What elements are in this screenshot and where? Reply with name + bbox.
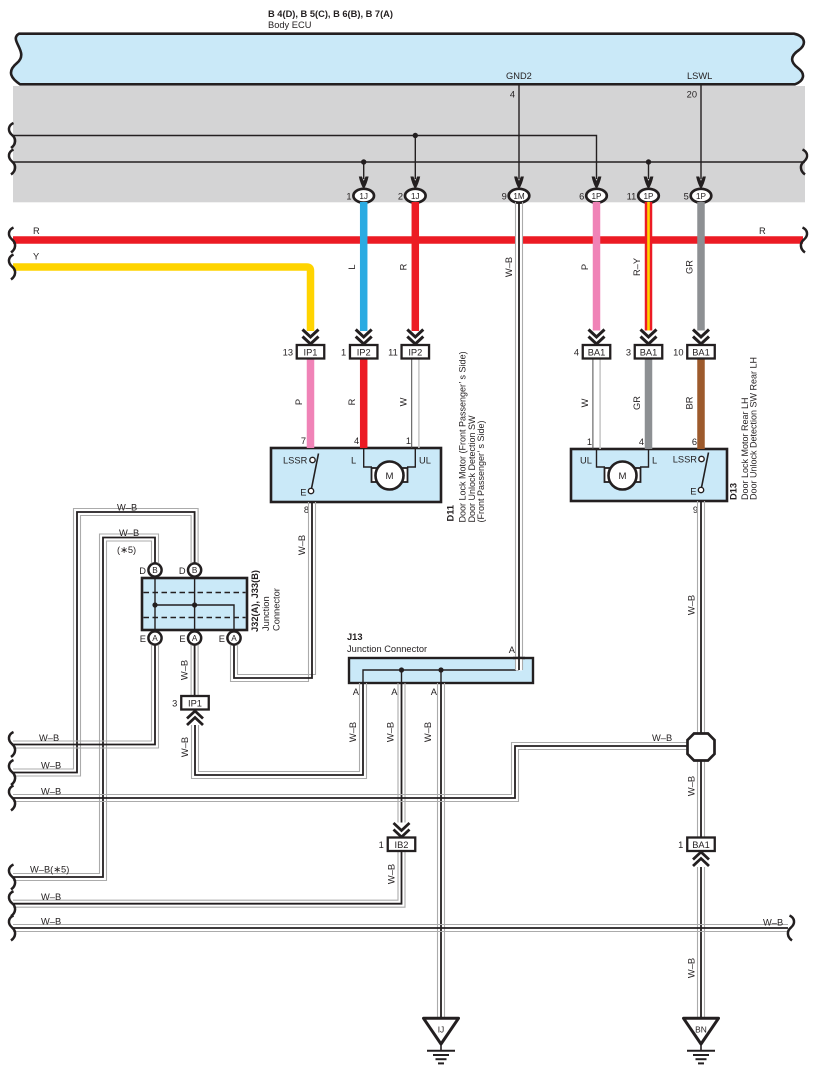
component D11 box [271,448,441,502]
wire L blue vertical [360,202,368,331]
arrow chevron out of BA1 right [693,852,709,866]
svg-text:R–Y: R–Y [632,258,642,276]
svg-text:D13: D13 [729,483,739,500]
svg-text:A: A [431,687,438,697]
svg-text:B: B [152,566,158,575]
svg-text:W–B(∗5): W–B(∗5) [30,865,69,875]
svg-text:W–B: W–B [348,722,358,742]
svg-text:P: P [580,264,590,270]
svg-text:IP2: IP2 [408,347,422,357]
wire W-B inner loop J32 B1 to bus (*5) [13,534,159,881]
connector oval 1P pin11 [627,189,659,203]
svg-text:3: 3 [172,699,177,709]
wire drop to 1J-2 [414,136,416,180]
wire W-B J32 A2 to IP1 [191,645,198,696]
wire W-B IP1 to J13 A1 [192,683,367,779]
svg-text:W: W [399,397,409,406]
wire R horizontal red [13,236,803,244]
wire band line B [13,161,805,163]
switch LSSR D11 [283,454,319,498]
svg-text:6: 6 [579,192,584,202]
connector box 1 BA1 right [678,838,715,852]
svg-text:Y: Y [33,252,39,262]
break squiggle band line B right [801,150,807,175]
arrow chevron out of IP1 mid [187,711,203,725]
junction dot J13 a [399,667,404,672]
svg-text:L: L [347,264,357,269]
connector oval 1J pin1 [346,189,374,203]
patch J13 border over 1M wire [513,657,525,659]
svg-text:B 4(D), B 5(C), B 6(B), B 7(A): B 4(D), B 5(C), B 6(B), B 7(A) [268,9,393,19]
svg-text:W–B: W–B [180,660,190,680]
svg-text:BA1: BA1 [588,347,606,357]
svg-text:M: M [619,471,627,482]
svg-text:E: E [179,634,185,644]
wire W-B J13 A3 to ground IJ [438,683,445,1018]
svg-text:A: A [353,687,360,697]
component J32 J33 junction connector box [142,578,247,630]
connector box 3 BA1 [626,345,662,359]
svg-text:1P: 1P [591,192,602,201]
dashed bus lines J32 [144,592,246,594]
svg-text:R: R [33,226,40,236]
wire J32 internal bus [155,605,234,630]
svg-text:1: 1 [379,840,384,850]
svg-text:9: 9 [502,192,507,202]
ground IJ [424,1018,459,1063]
arrow chevron into IP1 [303,330,319,345]
svg-text:W–B: W–B [652,733,672,743]
arrow into 1J-1 [359,177,369,190]
wire J13 internal drop 3 [440,670,442,683]
wire W-B outer loop J32 B2 to bus [13,509,198,777]
svg-text:W–B: W–B [687,958,697,978]
connector box 1 IP2 [341,345,377,359]
wire W-B IB2 to bus [13,851,405,907]
svg-text:GR: GR [684,260,694,274]
svg-text:A: A [391,687,398,697]
svg-text:E: E [690,487,696,497]
svg-text:LSSR: LSSR [673,455,698,465]
svg-text:10: 10 [673,348,683,358]
svg-text:A: A [231,634,237,643]
svg-text:GR: GR [632,396,642,410]
motor M D11 [351,448,431,490]
svg-text:E: E [300,488,306,498]
svg-text:6: 6 [692,437,697,447]
svg-text:W–B: W–B [387,864,397,884]
arrow into 1J-2 [410,177,420,190]
svg-text:W–B: W–B [687,595,697,615]
svg-text:W–B: W–B [41,787,61,797]
wire GND2 vertical [518,85,520,179]
svg-text:BA1: BA1 [640,347,658,357]
svg-text:W–B: W–B [180,737,190,757]
arrow chevron into IP2 pin11 [407,330,423,345]
svg-text:A: A [509,645,516,655]
break squiggle R right [801,228,807,253]
break squiggle bus6 left [9,916,15,941]
svg-text:Door Unlock Detection SW Rear: Door Unlock Detection SW Rear LH [748,357,758,500]
break squiggle Y left [9,255,15,280]
wire BR brown to D13 [697,359,705,450]
svg-text:L: L [351,456,356,466]
svg-text:1: 1 [406,436,411,446]
connector oval 1M pin9 [502,189,530,203]
svg-text:W–B: W–B [386,722,396,742]
svg-text:1P: 1P [696,192,707,201]
label D13 [729,357,759,500]
wire W-B 1M core inside J13 [516,657,522,671]
svg-text:BA1: BA1 [692,840,710,850]
wire W-B BA1 to ground BN [698,867,705,1018]
label J32(A) J33(B) [250,570,282,632]
arrow chevron into IB2 [394,823,410,837]
svg-text:A: A [152,634,158,643]
svg-text:4: 4 [354,436,359,446]
arrow into 1M [514,177,524,190]
wire W to D13 pin1 [593,359,600,450]
wire J13 internal bus [363,670,519,683]
svg-text:Body ECU: Body ECU [268,20,311,30]
svg-text:BA1: BA1 [692,347,710,357]
arrow chevron into BA1 pin3 [641,330,657,345]
svg-text:2: 2 [398,192,403,202]
svg-text:5: 5 [684,192,689,202]
svg-text:D: D [139,566,146,576]
wire Y yellow to IP1 [13,267,311,331]
wire W-B bottom bus [13,925,788,932]
arrow into 1P-5 [696,177,706,190]
svg-text:R: R [759,226,766,236]
arrow chevron into BA1 pin4 [589,330,605,345]
wire J32 internal vertical 2 [194,578,196,630]
svg-text:Junction Connector: Junction Connector [347,644,427,654]
svg-text:BN: BN [695,1025,707,1035]
wire GR gray to D13 [645,359,653,450]
node junction dot line B left [361,159,366,164]
node Body ECU title [268,9,393,30]
svg-text:D: D [179,566,186,576]
junction dot J32 b [192,602,197,607]
wire W to D11 pin1 [412,359,419,449]
svg-text:IB2: IB2 [395,840,409,850]
svg-text:W–B: W–B [763,918,783,928]
svg-text:1: 1 [346,192,351,202]
svg-text:L: L [652,456,657,466]
junction dot J32 a [152,602,157,607]
svg-text:1J: 1J [359,192,368,201]
svg-text:W: W [580,398,590,407]
svg-text:W–B: W–B [119,528,139,538]
svg-text:R: R [399,263,409,270]
wire W-B 1M white core over red [516,235,522,244]
svg-text:4: 4 [639,437,644,447]
wire W-B D13 E to splice [698,501,705,734]
svg-text:R: R [347,398,357,405]
svg-text:W–B: W–B [117,503,137,513]
break squiggle band line B left [9,150,15,175]
svg-text:E: E [140,634,146,644]
svg-text:LSWL: LSWL [687,71,712,81]
break squiggle bus3 [9,786,15,811]
connector box 13 IP1 [283,345,325,359]
arrow chevron into IP2 pin1 [356,330,372,345]
label D11 [445,351,486,522]
Body ECU box B [11,34,804,85]
svg-text:J32(A), J33(B): J32(A), J33(B) [250,570,260,632]
svg-text:3: 3 [626,348,631,358]
svg-text:7: 7 [301,436,306,446]
svg-text:LSSR: LSSR [283,456,308,466]
svg-text:W–B: W–B [39,733,59,743]
connector oval 1J pin2 [398,189,426,203]
connector box 3 IP1 mid [172,696,209,710]
svg-text:(∗5): (∗5) [117,545,136,555]
svg-text:W–B: W–B [504,257,514,277]
svg-text:P: P [294,399,304,405]
splice octagon [688,734,715,761]
wire W-B splice to BA1 [698,761,705,838]
arrow chevron into BA1 pin10 [693,330,709,345]
svg-text:1: 1 [341,348,346,358]
wire J13 internal drop 2 [401,670,403,683]
break squiggle bus5 [9,891,15,916]
junction dot J13 b [438,667,443,672]
wire R-Y vertical [645,202,653,331]
svg-text:E: E [219,634,225,644]
motor M D13 [580,449,657,490]
svg-text:1M: 1M [513,192,525,201]
svg-text:1P: 1P [643,192,654,201]
break squiggle band line A left [9,123,15,148]
break squiggle bus4 [9,865,15,890]
svg-text:(Front Passenger’ s Side): (Front Passenger’ s Side) [476,420,486,522]
switch LSSR D13 [673,453,709,497]
node junction dot line A [413,133,418,138]
break squiggle bus2 [9,760,15,785]
break squiggle bus1 [9,732,15,757]
wire W-B J13 A2 to IB2 [398,683,405,823]
wire P pink to D11 [307,359,315,449]
svg-text:W–B: W–B [41,917,61,927]
svg-text:W–B: W–B [41,892,61,902]
connector box 1 IB2 [379,838,416,852]
wire W-B J32 A1 to bus [13,645,159,748]
wire P pink vertical top [593,202,601,331]
wire GR gray vertical top [697,202,705,331]
svg-text:J13: J13 [347,632,363,642]
terminal A circle 1 (pin E) [140,631,162,644]
svg-text:IP2: IP2 [357,347,371,357]
terminal A circle 3 (pin E) [219,631,241,644]
wire drop to 1P-11 [648,162,650,179]
node shield band [13,86,805,202]
svg-text:Connector: Connector [272,588,282,631]
svg-text:UL: UL [419,456,431,466]
svg-text:W–B: W–B [423,722,433,742]
svg-text:D11: D11 [445,505,455,522]
connector oval 1P pin5 [684,189,712,203]
break squiggle R left [9,228,15,253]
terminal A circle 2 (pin E) [179,631,201,644]
svg-text:IP1: IP1 [304,347,318,357]
wire LSWL vertical [700,85,702,179]
wire R red vertical [412,202,420,331]
svg-text:BR: BR [684,396,694,409]
wire drop to 1J-1 [363,162,365,179]
svg-text:4: 4 [510,90,515,100]
svg-text:1: 1 [678,840,683,850]
arrow into 1P-6 [592,177,602,190]
wire W-B from 1M to J13 [516,202,523,670]
svg-text:W–B: W–B [687,776,697,796]
terminal B circle 2 (pin D) [179,563,201,576]
wire J32 internal vertical 1 [154,578,156,630]
svg-text:B: B [192,566,198,575]
break squiggle bus6 right [788,916,794,941]
svg-text:13: 13 [283,348,293,358]
svg-text:20: 20 [687,90,697,100]
svg-text:A: A [192,634,198,643]
wire band line A [13,136,597,180]
svg-text:W–B: W–B [41,761,61,771]
svg-text:IP1: IP1 [188,698,202,708]
connector box 11 IP2 [388,345,429,359]
svg-text:11: 11 [388,348,398,358]
arrow into 1P-11 [644,177,654,190]
component J13 junction connector box [347,632,533,683]
svg-text:M: M [386,471,394,482]
node junction dot line B right [646,159,651,164]
wire R red to D11 [360,359,368,449]
connector box 4 BA1 [574,345,610,359]
svg-text:GND2: GND2 [506,71,532,81]
connector oval 1P pin6 [579,189,607,203]
svg-text:4: 4 [574,348,579,358]
svg-text:1J: 1J [411,192,420,201]
terminal B circle 1 (pin D) [139,563,161,576]
svg-text:Junction: Junction [261,596,271,631]
component D13 box [571,449,727,501]
svg-text:W–B: W–B [297,535,307,555]
svg-text:11: 11 [627,192,637,202]
svg-text:IJ: IJ [438,1025,445,1035]
svg-text:1: 1 [587,437,592,447]
svg-text:UL: UL [580,456,592,466]
connector box 10 BA1 [673,345,715,359]
ground BN [684,1018,719,1063]
wire W-B D11 E to J32 A3 [231,502,316,682]
wire W-B bus to splice octagon [13,743,688,802]
